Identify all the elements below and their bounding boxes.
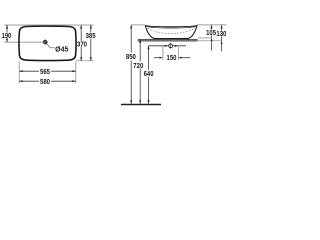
svg-text:385: 385 (86, 33, 96, 40)
svg-text:190: 190 (2, 33, 12, 40)
svg-text:130: 130 (216, 31, 226, 38)
svg-text:Ø45: Ø45 (55, 47, 68, 54)
svg-text:565: 565 (40, 69, 50, 76)
svg-text:640: 640 (144, 71, 154, 78)
svg-text:720: 720 (133, 63, 143, 70)
svg-text:850: 850 (126, 54, 136, 61)
svg-text:150: 150 (167, 55, 177, 62)
svg-text:370: 370 (77, 41, 87, 48)
svg-text:105: 105 (206, 30, 216, 37)
svg-text:580: 580 (40, 79, 50, 86)
